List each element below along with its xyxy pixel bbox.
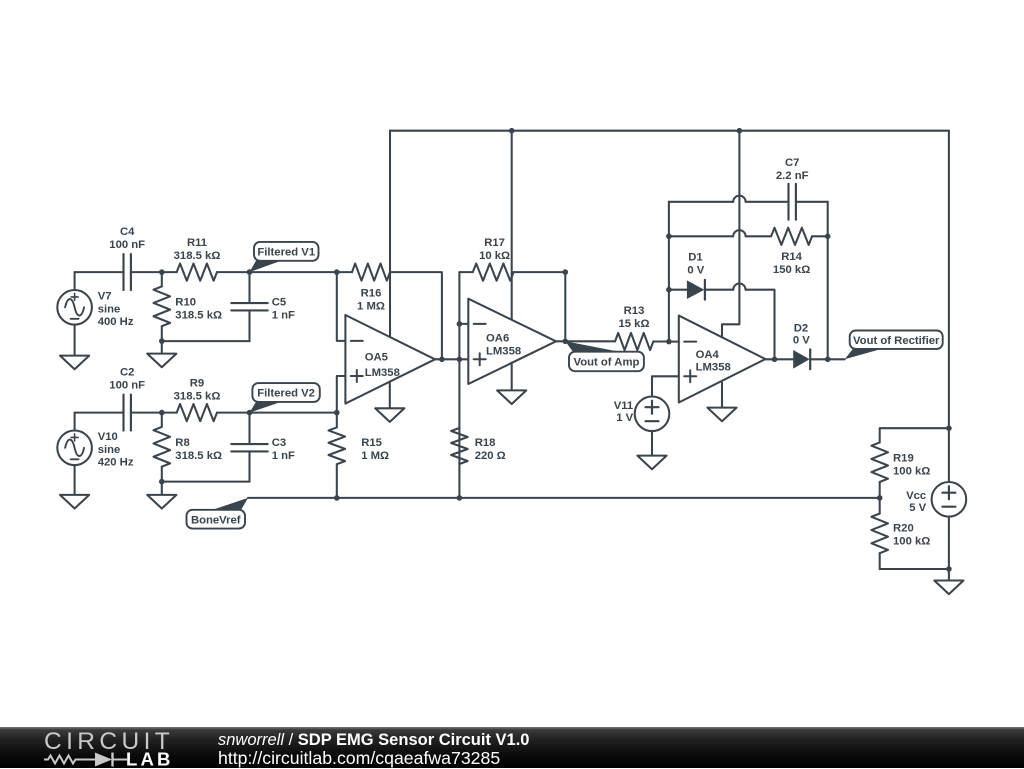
junction dot at R17 feedback corner xyxy=(563,269,569,275)
svg-text:Vcc: Vcc xyxy=(906,490,926,502)
wire: D2 cathode to Vout node xyxy=(812,358,828,360)
junction dot D1-left xyxy=(666,287,672,293)
ground below V7 xyxy=(74,325,76,356)
node: Filtered V2 junction xyxy=(247,410,253,416)
svg-text:0 V: 0 V xyxy=(687,265,704,277)
junction dot OA4 inverting node xyxy=(666,339,672,345)
node B junction dot xyxy=(159,410,165,416)
svg-text:1 MΩ: 1 MΩ xyxy=(357,301,385,313)
svg-text:C3: C3 xyxy=(272,437,286,449)
capacitor C2 xyxy=(122,395,124,431)
svg-text:R8: R8 xyxy=(175,437,189,449)
svg-text:R13: R13 xyxy=(624,305,645,317)
op-amp OA5 V- ground stub xyxy=(389,381,391,408)
label: Vout of Rectifier xyxy=(845,349,882,360)
resistor R9 xyxy=(162,412,177,414)
wire: OA4 V+ supply drop with jog xyxy=(722,131,739,337)
wire: BoneVref rail xyxy=(248,497,880,499)
wire: R17 to OA6 output feedback corner xyxy=(514,272,566,341)
wire: right rail down to Vcc xyxy=(948,131,950,482)
label: Filtered V2 xyxy=(250,402,282,413)
wire: OA5 output to OA6 + xyxy=(435,358,468,360)
svg-text:LM358: LM358 xyxy=(486,345,521,357)
op-amp OA4 V- ground stub xyxy=(721,383,723,408)
node: Vcc ground junction xyxy=(946,566,952,572)
op-amp U OA4 xyxy=(679,316,766,403)
voltage source Vcc xyxy=(932,482,967,517)
svg-text:C5: C5 xyxy=(272,297,286,309)
svg-text:C2: C2 xyxy=(120,366,134,378)
svg-text:C7: C7 xyxy=(785,157,799,169)
svg-text:sine: sine xyxy=(98,303,121,315)
junction dot R14-right xyxy=(825,234,831,240)
wire: OA5 V+ supply drop xyxy=(389,131,391,337)
junction dot R15-BoneVref xyxy=(334,495,340,501)
svg-text:10 kΩ: 10 kΩ xyxy=(479,250,510,262)
resistor R14 xyxy=(771,228,812,245)
junction dot at OA6 inverting input xyxy=(457,321,463,327)
svg-text:318.5 kΩ: 318.5 kΩ xyxy=(174,250,221,262)
wire: R16 to OA5 output feedback corner xyxy=(390,272,442,359)
wire: top supply rail xyxy=(390,130,949,132)
wire: to OA4 inverting input xyxy=(669,341,679,343)
wire: R10 bottom to C5 bottom xyxy=(162,340,250,342)
svg-text:318.5 kΩ: 318.5 kΩ xyxy=(175,310,222,322)
svg-text:R20: R20 xyxy=(893,523,914,535)
ground below OA5 xyxy=(375,408,404,422)
svg-text:420 Hz: 420 Hz xyxy=(98,456,134,468)
ground below V11 xyxy=(651,431,653,456)
resistor R11 xyxy=(162,271,177,273)
svg-text:BoneVref: BoneVref xyxy=(191,514,241,526)
op-amp OA6 V- ground stub xyxy=(511,363,513,391)
svg-text:OA4: OA4 xyxy=(696,349,720,361)
op-amp OA5 minus mark xyxy=(351,340,363,342)
svg-text:100 kΩ: 100 kΩ xyxy=(893,536,930,548)
ground below R8 xyxy=(161,482,163,495)
svg-text:220 Ω: 220 Ω xyxy=(475,450,506,462)
svg-text:LM358: LM358 xyxy=(696,362,731,374)
svg-text:100 nF: 100 nF xyxy=(109,239,145,251)
resistor R20 xyxy=(879,498,881,514)
ground below OA4 xyxy=(707,408,736,422)
wire: Filtered V1 to OA5 inverting branch xyxy=(250,271,337,273)
svg-text:OA6: OA6 xyxy=(486,332,509,344)
ground below OA6 xyxy=(497,390,526,404)
junction dot R18-BoneVref xyxy=(457,495,463,501)
label: Vout of Amp xyxy=(565,341,620,352)
node: OA5 inverting branch junction xyxy=(334,269,340,275)
resistor R15 xyxy=(336,413,338,428)
svg-text:LAB: LAB xyxy=(126,749,174,769)
ground below Vcc xyxy=(948,569,950,581)
wire: OA6 output to R13 xyxy=(556,340,615,342)
svg-text:R16: R16 xyxy=(361,288,382,300)
svg-text:100 kΩ: 100 kΩ xyxy=(893,466,930,478)
op-amp U OA5 xyxy=(345,315,435,404)
diode D2 xyxy=(793,350,809,369)
node: OA6 output junction xyxy=(563,339,569,345)
node: OA5 non-inverting branch junction xyxy=(334,410,340,416)
svg-text:Vout of Rectifier: Vout of Rectifier xyxy=(853,335,940,347)
svg-text:R15: R15 xyxy=(361,437,382,449)
svg-text:V11: V11 xyxy=(614,400,633,412)
wire: Vcc bottom to ground node xyxy=(948,517,950,569)
wire: feedback-loop right vertical xyxy=(827,202,829,359)
svg-text:318.5 kΩ: 318.5 kΩ xyxy=(174,391,221,403)
junction dot at R18 branch xyxy=(457,357,463,363)
resistor R18 xyxy=(451,428,468,464)
op-amp OA5 plus mark xyxy=(351,375,363,377)
resistor R10 xyxy=(161,272,163,286)
svg-text:sine: sine xyxy=(98,444,121,456)
svg-text:400 Hz: 400 Hz xyxy=(98,316,134,328)
diode D1 xyxy=(669,289,687,291)
voltage source V10 sine xyxy=(74,413,76,431)
op-amp OA6 minus mark xyxy=(474,323,486,325)
wire: R8 bottom to C3 bottom xyxy=(162,481,250,483)
svg-text:OA5: OA5 xyxy=(365,351,388,363)
label: BoneVref xyxy=(212,498,248,510)
resistor R16 xyxy=(337,271,352,273)
footer credit text xyxy=(218,731,529,750)
capacitor C7 xyxy=(787,184,789,220)
wire: V10 to node B through C2 xyxy=(75,412,124,414)
op-amp OA4 minus mark xyxy=(684,341,696,343)
wire: to Vout of Rectifier label xyxy=(828,358,845,360)
wire: D1 cathode to OA4 output, with hop xyxy=(706,289,733,291)
op-amp U OA6 xyxy=(468,299,556,384)
voltage source V11 xyxy=(652,376,679,397)
svg-text:1 nF: 1 nF xyxy=(272,450,295,462)
svg-text:Filtered V2: Filtered V2 xyxy=(257,388,315,400)
wire: OA4 output to D2 xyxy=(765,358,793,360)
wire: R20 bottom to rail xyxy=(880,568,949,570)
wire: V7 to node A through C4 xyxy=(75,271,124,273)
svg-text:R18: R18 xyxy=(475,437,496,449)
junction on top rail above OA4 xyxy=(737,128,743,134)
svg-text:R10: R10 xyxy=(175,297,196,309)
junction on top rail above OA6 xyxy=(509,128,515,134)
resistor R8 xyxy=(161,413,163,427)
wire: branch to R19 xyxy=(880,428,949,442)
ground below R10 xyxy=(161,341,163,354)
svg-text:V10: V10 xyxy=(98,431,118,443)
node: bottom of R8 xyxy=(159,479,165,485)
label: Filtered V1 xyxy=(250,261,282,272)
svg-text:318.5 kΩ: 318.5 kΩ xyxy=(175,450,222,462)
svg-text:R14: R14 xyxy=(781,251,802,263)
ground below V10 xyxy=(74,465,76,495)
op-amp OA4 plus mark xyxy=(684,375,696,377)
svg-text:C4: C4 xyxy=(120,226,135,238)
svg-text:1 MΩ: 1 MΩ xyxy=(361,450,389,462)
svg-text:D2: D2 xyxy=(794,323,808,335)
resistor R13 xyxy=(615,333,653,350)
wire: OA6 V+ supply drop xyxy=(511,131,513,320)
node: rectifier output junction xyxy=(825,357,831,363)
node: Filtered V1 junction xyxy=(247,269,253,275)
svg-text:1 V: 1 V xyxy=(616,412,633,424)
svg-text:Filtered V1: Filtered V1 xyxy=(257,246,315,258)
CircuitLab logo xyxy=(30,727,230,768)
svg-text:V7: V7 xyxy=(98,291,112,303)
svg-text:Vout of Amp: Vout of Amp xyxy=(574,357,640,369)
svg-text:2.2 nF: 2.2 nF xyxy=(776,170,809,182)
wire: feedback-loop left vertical xyxy=(668,202,670,342)
svg-text:D1: D1 xyxy=(688,252,702,264)
capacitor C5 xyxy=(248,272,250,303)
capacitor C4 xyxy=(122,254,124,290)
svg-text:0 V: 0 V xyxy=(793,335,810,347)
svg-text:5 V: 5 V xyxy=(909,502,926,514)
wire: C7 top feedback with hop xyxy=(669,201,733,203)
node: BoneVref divider junction xyxy=(877,495,883,501)
voltage source V7 sine xyxy=(74,272,76,290)
wire: down to OA5 inverting input xyxy=(337,272,346,341)
node: OA4 output junction xyxy=(772,357,778,363)
node: divider top junction xyxy=(946,425,952,431)
wire: stub to OA6 inverting input xyxy=(459,323,468,325)
node: OA5 output junction xyxy=(439,357,445,363)
svg-text:1 nF: 1 nF xyxy=(272,310,295,322)
svg-text:R9: R9 xyxy=(190,378,204,390)
svg-text:150 kΩ: 150 kΩ xyxy=(773,264,810,276)
wire: vertical net R17-left / OA6 inputs / R18 xyxy=(458,272,460,498)
capacitor C3 xyxy=(248,413,250,445)
svg-text:R19: R19 xyxy=(893,453,914,465)
footer bar xyxy=(0,727,1024,768)
svg-text:LM358: LM358 xyxy=(365,367,400,379)
svg-text:R11: R11 xyxy=(187,237,207,249)
svg-text:R17: R17 xyxy=(484,237,505,249)
op-amp OA6 plus mark xyxy=(474,358,486,360)
resistor R19 xyxy=(871,442,888,482)
wire: up to OA5 non-inverting input xyxy=(337,376,346,413)
svg-text:15 kΩ: 15 kΩ xyxy=(618,318,649,330)
node A junction dot xyxy=(159,269,165,275)
node: bottom of R10 xyxy=(159,338,165,344)
junction dot R14-left xyxy=(666,234,672,240)
resistor R17 xyxy=(459,271,472,273)
svg-text:100 nF: 100 nF xyxy=(109,379,145,391)
wire: Filtered V2 to OA5 + branch xyxy=(250,412,337,414)
wire: R14 feedback with hop xyxy=(669,235,733,237)
